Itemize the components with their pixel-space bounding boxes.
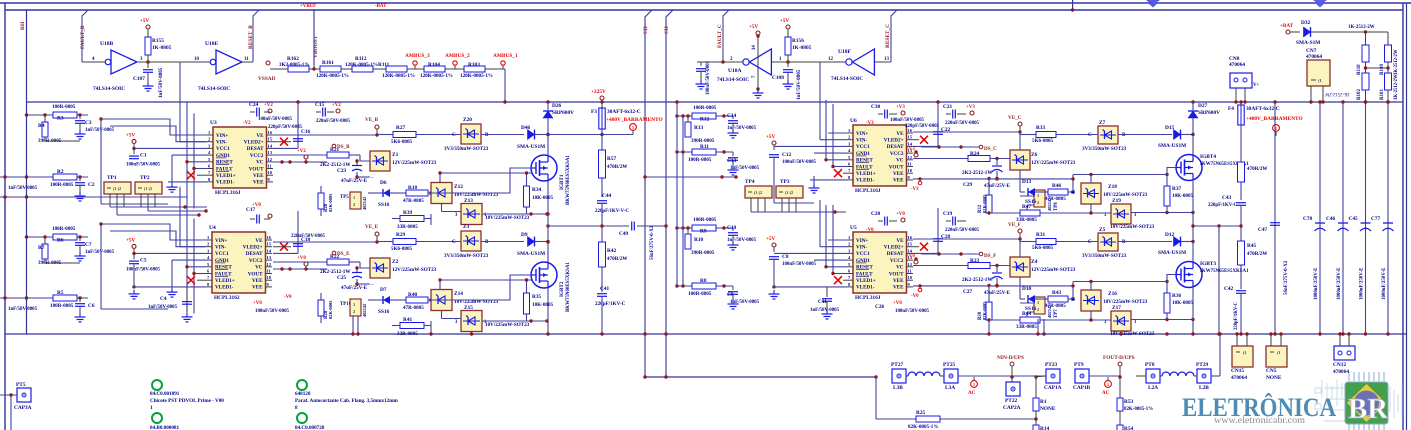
wire pin8 feed [168,181,207,183]
svg-text:R6: R6 [57,238,64,244]
svg-text:D13: D13 [1022,179,1032,185]
wire gate [1167,275,1176,282]
svg-text:SMA-S1M: SMA-S1M [1296,40,1320,46]
svg-text:CAP1A: CAP1A [1044,385,1062,391]
pin 14 DESAT [907,252,914,254]
transistor IGBT3 [1176,262,1202,288]
svg-text:1: 1 [1107,382,1109,387]
pin 12 VC [907,266,914,268]
zener Z4 12V/225mW-SOT23 [1010,257,1030,277]
wire Z19 pin1 row [1131,212,1193,214]
ground [171,288,173,292]
svg-text:VIN+: VIN+ [215,238,227,244]
zener Z3 3V3/350mW-SOT23 [416,241,461,243]
svg-text:AMBUS_3: AMBUS_3 [405,53,430,59]
svg-text:14: 14 [268,143,273,148]
pin 1 VIN+ [207,134,214,136]
svg-text:R25: R25 [916,410,926,416]
capacitor C23 47uF/25V-E [356,161,358,165]
resistor R42 470R/2W [599,242,606,267]
svg-text:84.B0.000081: 84.B0.000081 [150,425,179,430]
border frame right vertical pair [1402,3,1404,430]
svg-text:100nF/50V-0805: 100nF/50V-0805 [126,162,161,167]
svg-text:DS_C: DS_C [984,146,997,152]
svg-text:220nF/50V-0805: 220nF/50V-0805 [316,119,351,124]
resistor R45 470R/2W [1238,241,1245,265]
svg-text:220pF/50V-0805: 220pF/50V-0805 [905,124,940,129]
wire gate riser [1072,282,1074,300]
svg-text:16: 16 [268,130,273,135]
svg-text:VE_B: VE_B [365,117,379,123]
svg-text:R37: R37 [1172,186,1182,192]
ground [147,73,149,82]
svg-text:R31: R31 [1036,232,1046,238]
svg-text:R1: R1 [1040,399,1047,405]
resistor R161 120K-0805-1% [320,66,341,72]
svg-text:SS16: SS16 [378,309,390,315]
diode D46 SMA-US1M [481,134,524,136]
svg-text:R156: R156 [792,38,804,44]
wire Z17 stub to rail [1120,331,1122,334]
wire bank top [1364,30,1367,33]
svg-text:C43: C43 [1222,195,1232,201]
wire collector [547,242,549,263]
svg-text:100nF/50V-0805: 100nF/50V-0805 [706,60,711,95]
resistor R44b 470R/2W [1240,125,1242,162]
wire collector [1192,242,1194,262]
svg-text:R36: R36 [1172,293,1182,299]
svg-text:TP8: TP8 [1054,202,1059,211]
svg-text:13: 13 [268,150,273,155]
svg-text:VE: VE [896,131,904,137]
capacitor C2 1nF/50V-0805 [79,177,81,181]
wire R30 stub to rail [988,320,990,334]
svg-text:C77: C77 [1371,216,1381,222]
svg-text:VOUT: VOUT [889,164,904,170]
ground [732,236,734,241]
svg-text:C19: C19 [943,211,953,217]
wire Z19 pin1 row [1131,319,1193,321]
resistor R104 120K-0805-1% [424,66,445,72]
wire zener top row [1073,174,1167,176]
svg-text:R161: R161 [322,60,334,66]
svg-text:47R-0805: 47R-0805 [403,198,424,204]
svg-text:56nF/275V-0-X2: 56nF/275V-0-X2 [1284,260,1289,295]
zener Z6 12V/225mW-SOT23 [1010,150,1030,170]
resistor R7 390R-0805 [44,237,46,244]
svg-text:DESAT: DESAT [246,251,263,257]
net minus +V0 [918,288,922,292]
svg-text:Z6: Z6 [1031,152,1038,158]
svg-text:C49: C49 [619,231,629,237]
ground [79,124,81,130]
svg-text:VEE: VEE [252,278,263,284]
svg-text:VIN+: VIN+ [216,133,228,139]
svg-text:AC: AC [968,390,976,396]
svg-text:+BAT: +BAT [1280,23,1294,29]
capacitor C3 1nF/50V-0805 [79,115,81,119]
svg-text:DS_F: DS_F [984,253,996,259]
resistor R32 82K-0805 [986,195,992,213]
capacitor C49 56nF/275V-X2 [548,225,629,227]
svg-text:CAP3A: CAP3A [14,405,32,411]
svg-text:1000uF/250V-E: 1000uF/250V-E [1314,267,1319,300]
svg-text:220pF/1KV-V-C: 220pF/1KV-V-C [595,209,629,214]
capacitor C7 1nF/50V-0805 [79,237,81,241]
wire R25 drop [875,377,877,419]
pin 10 VEE [907,279,914,281]
pin 14 DESAT [267,147,274,149]
logo chip graphic [1345,372,1388,430]
svg-text:R3: R3 [57,116,64,122]
resistor R112 120K-0805-1% [352,66,373,72]
svg-text:(1: (1 [1318,78,1322,83]
svg-text:5K6-0805: 5K6-0805 [391,246,413,252]
connector PT22 CAP2A [1011,377,1013,382]
svg-text:+V2: +V2 [297,149,306,154]
svg-text:47uF/25V-E: 47uF/25V-E [341,285,368,291]
svg-text:C107: C107 [133,76,145,82]
pin 4 GND1 [207,154,214,156]
svg-text:2K2-2512-1W: 2K2-2512-1W [962,170,993,176]
svg-text:3V3/350mW-SOT23: 3V3/350mW-SOT23 [444,253,489,259]
red X pin15 D [920,243,928,251]
svg-text:470R/2W: 470R/2W [607,256,628,262]
svg-text:R57: R57 [607,156,617,162]
svg-text:82K-0805-1%: 82K-0805-1% [1124,407,1153,412]
svg-text:30AFT-6x32-C: 30AFT-6x32-C [607,109,641,115]
svg-text:10K-0805: 10K-0805 [1172,300,1194,306]
inductor L2 [1160,375,1162,377]
mounting note circle 1 [152,380,162,390]
svg-text:VC: VC [255,265,263,271]
svg-text:10: 10 [908,168,913,173]
junction dots bottom rail [1191,332,1194,335]
pin 6 FAULT [206,273,213,275]
ground [79,186,81,192]
svg-text:C10: C10 [727,225,737,231]
svg-text:DESAT: DESAT [887,144,904,150]
capacitor C9 1nF/50V-0805 [732,286,734,290]
pin 15 VLED2+ [267,141,274,143]
svg-text:C25: C25 [337,275,347,281]
svg-text:1: 1 [848,128,850,133]
svg-text:74LS14-SOIC: 74LS14-SOIC [93,86,125,92]
wire pin6 FAULT feed [194,273,206,275]
resistor R28 82K-0805 [318,300,324,316]
red X pin15 B [280,243,288,251]
svg-text:74LS14-SOIC: 74LS14-SOIC [831,76,863,82]
svg-text:74LS14-SOIC: 74LS14-SOIC [717,77,749,83]
svg-text:R46: R46 [1052,183,1062,189]
wire pin9 row [913,285,1073,287]
svg-text:220pF/1KV-C: 220pF/1KV-C [1208,203,1238,208]
border frame outer top line [0,2,1411,4]
svg-text:10: 10 [267,275,272,280]
inductor L3 [906,375,908,377]
svg-text:-V3: -V3 [911,187,919,192]
svg-text:(1: (1 [1243,350,1247,355]
svg-text:C15: C15 [315,102,325,108]
wire U18B output [137,61,210,63]
pin 3 VCC1 [206,252,213,254]
resistor R13 390R-0805 [687,116,689,122]
svg-text:470064: 470064 [1306,54,1322,60]
resistor R14 [1035,419,1037,425]
svg-text:47R-0805: 47R-0805 [403,305,424,311]
svg-text:1000uF/250V-E: 1000uF/250V-E [1337,267,1342,300]
pin 3 VCC1 [847,145,854,147]
net DS_F [921,253,979,255]
transistor IGBT4 [1176,155,1202,181]
resistor R23 2K2-2512-1W [913,265,968,267]
wire Z14 stub to rail [430,332,432,334]
svg-text:-V2: -V2 [243,121,251,126]
svg-text:C3: C3 [85,120,92,126]
svg-text:10: 10 [268,170,273,175]
svg-text:CAP1B: CAP1B [1073,385,1091,391]
port arrow top 2 [1313,0,1327,5]
svg-text:220pF/1KV-C: 220pF/1KV-C [1234,302,1239,330]
wire collector [547,135,549,156]
pin 13 VCC2 [266,259,273,261]
svg-text:DS_E: DS_E [337,251,350,257]
svg-text:VEE: VEE [893,178,904,184]
svg-text:120K-0805-1%: 120K-0805-1% [382,73,415,79]
svg-text:Z2: Z2 [392,259,399,265]
svg-text:33R-0805: 33R-0805 [1016,324,1037,330]
svg-text:C4: C4 [160,296,167,302]
wire emitter [1192,181,1194,213]
diode D9 SMA-US1M [481,241,524,243]
svg-text:IGBT4: IGBT4 [1200,154,1216,160]
svg-text:16: 16 [267,235,272,240]
wire routing verticals [179,187,181,247]
svg-text:HCPL3162: HCPL3162 [214,295,240,301]
red X pin7 D [834,276,842,284]
svg-text:+V2: +V2 [332,103,341,108]
ground [773,290,775,294]
wire DESAT [273,147,298,149]
svg-text:C23: C23 [337,168,347,174]
svg-text:648120: 648120 [295,391,311,397]
svg-text:CH: CH [664,26,670,34]
zener Z2 12V/225mW-SOT23 [349,261,360,263]
svg-text:R47: R47 [1022,204,1032,210]
pin 4 GND1 [206,259,213,261]
svg-text:+V0: +V0 [893,301,902,306]
capacitor C22 220pF/50V-0805 [937,102,939,146]
svg-text:1nF/50V-0805: 1nF/50V-0805 [727,238,757,243]
svg-text:VE_E: VE_E [365,224,379,230]
wire pin8 feed [168,286,206,288]
svg-text:82K-0805: 82K-0805 [982,301,987,320]
svg-text:VLED1-: VLED1- [856,285,875,291]
ground [133,290,135,294]
capacitor C29 47uF/25V-E [996,159,998,166]
svg-text:5K6-0805: 5K6-0805 [1032,245,1054,251]
svg-text:AC: AC [1102,390,1110,396]
svg-text:U18B: U18B [100,41,114,47]
capacitor C14 1nF/50V-0805 [732,116,734,119]
resistor R43 47R-0805 [1035,298,1048,300]
pin 5 RESET [206,266,213,268]
wire pin6 FAULT feed [194,168,207,170]
svg-text:+400V_BARRAMENTO: +400V_BARRAMENTO [606,117,663,123]
svg-text:12V/225mW-SOT23: 12V/225mW-SOT23 [1031,160,1076,166]
svg-text:Z17: Z17 [1112,305,1121,311]
svg-text:(1: (1 [1277,350,1281,355]
svg-text:(1 (2: (1 (2 [113,186,121,191]
svg-text:R104: R104 [428,62,440,68]
svg-text:Z4: Z4 [1031,259,1038,265]
svg-text:+V3: +V3 [906,147,915,152]
pin 13 VCC2 [907,152,914,154]
pin 11 VOUT [266,273,273,275]
svg-text:SMA-US1M: SMA-US1M [1158,143,1186,149]
svg-text:470064: 470064 [1229,62,1245,68]
svg-text:HCPL316J: HCPL316J [855,295,881,301]
svg-text:CH: CH [643,26,649,34]
svg-text:R35: R35 [532,294,542,300]
svg-text:14: 14 [908,141,913,146]
transistor IGBT1 [531,155,557,181]
power VSSAD [266,61,270,65]
svg-text:TP3: TP3 [780,179,790,185]
red X pin15 C [920,136,928,144]
svg-text:FOUT-D/UPS: FOUT-D/UPS [1103,355,1135,361]
svg-text:HCPL316J: HCPL316J [855,188,881,194]
svg-text:47R-0805: 47R-0805 [1045,196,1066,202]
svg-text:HCPL316J: HCPL316J [215,190,241,196]
svg-text:82K-0805: 82K-0805 [328,193,333,212]
svg-text:1nF/50V-0805: 1nF/50V-0805 [85,128,115,133]
wire U18F output to RESET_C [875,61,891,63]
svg-text:TP1: TP1 [107,175,117,181]
svg-text:1K-2512-2W: 1K-2512-2W [1324,91,1350,96]
svg-text:1000uF/250V-E: 1000uF/250V-E [1360,267,1365,300]
svg-text:10K-0805: 10K-0805 [532,302,554,308]
svg-text:C7: C7 [85,242,92,248]
svg-text:100nF/50V-0805: 100nF/50V-0805 [895,309,930,314]
svg-text:Z18: Z18 [1108,184,1117,190]
svg-text:3V3/350mW-SOT23: 3V3/350mW-SOT23 [1082,146,1127,152]
wire B emitter to rail [547,321,549,334]
capacitor C13 1nF/50V-0805 [732,152,734,156]
border frame inner top line [5,9,1403,11]
svg-text:R103: R103 [468,62,480,68]
svg-text:SRP600V: SRP600V [552,110,574,116]
capacitor C47 56nF/275V-X2 [1274,102,1276,334]
capacitor C45 1000uF/250V-E [1365,102,1367,334]
svg-text:RESET_B: RESET_B [248,25,254,49]
connector 402142 TP8 [1034,190,1045,207]
svg-text:VOUT: VOUT [889,271,904,277]
svg-text:100R-0805: 100R-0805 [50,303,74,309]
wire U5 pin feeds [828,239,847,241]
svg-text:82K-0805-1%: 82K-0805-1% [908,424,938,430]
wire input row R2 [0,176,88,178]
resistor R21 2K2-2512-1W [273,154,327,156]
svg-text:D7: D7 [380,287,387,293]
svg-text:C11: C11 [818,299,827,305]
svg-text:5K6-0805: 5K6-0805 [1032,138,1054,144]
svg-text:12V/225mW-SOT23: 12V/225mW-SOT23 [1031,267,1076,273]
ground [732,124,734,129]
svg-text:C44: C44 [602,193,612,199]
svg-text:VEE: VEE [252,285,263,291]
resistor R10 390R-0805 [687,228,689,234]
svg-text:1nF/50V-0805: 1nF/50V-0805 [158,67,164,98]
svg-text:220pF/50V-0805: 220pF/50V-0805 [268,125,303,130]
svg-text:PT29: PT29 [1196,362,1209,368]
svg-text:15: 15 [268,137,273,142]
wire phase C to cap bank [1193,225,1219,227]
pin 1 VIN+ [206,239,213,241]
svg-text:220nF/50V-0805: 220nF/50V-0805 [945,121,980,126]
svg-text:47uF/25V-E: 47uF/25V-E [984,290,1011,296]
wire phase link A-B [547,214,549,242]
svg-text:C27: C27 [963,289,973,295]
svg-text:C: C [1088,132,1092,138]
svg-text:+V0: +V0 [252,203,261,208]
svg-text:100nF/50V-0805: 100nF/50V-0805 [782,262,817,267]
svg-text:402142: 402142 [362,303,367,317]
svg-text:1000uF/250V-E: 1000uF/250V-E [1382,267,1387,300]
svg-text:VIN+: VIN+ [856,238,868,244]
wire input row R8 [677,285,733,287]
svg-text:D32: D32 [1301,20,1311,26]
diode D15 SMA-US1M [1118,134,1172,136]
svg-text:VIN-: VIN- [216,140,227,146]
pin 5 RESET [847,266,854,268]
svg-text:SMA-US1M: SMA-US1M [517,144,545,150]
net minus +V3 [918,181,922,185]
svg-text:12V/225mW-SOT23: 12V/225mW-SOT23 [392,267,437,273]
svg-text:14: 14 [908,248,913,253]
svg-text:SMA-US1M: SMA-US1M [517,251,545,257]
svg-text:C26: C26 [875,304,885,310]
wire emitter row [482,213,547,215]
svg-text:11: 11 [267,269,271,274]
svg-text:C24: C24 [249,102,259,108]
svg-text:IKW75N65ES5XKSA1: IKW75N65ES5XKSA1 [1200,269,1249,274]
capacitor C109 [700,62,702,66]
capacitor C5b 1nF ground cap [186,287,188,300]
svg-text:VLED2+: VLED2+ [244,140,264,146]
svg-text:VEE: VEE [893,278,904,284]
svg-text:AMBUS_1: AMBUS_1 [493,53,518,59]
svg-text:D9: D9 [521,232,528,238]
svg-text:TP7: TP7 [1054,309,1059,318]
svg-text:15: 15 [908,135,913,140]
pin 1 VIN+ [847,239,854,241]
svg-text:18V/225mW-SOT23: 18V/225mW-SOT23 [1110,331,1155,337]
svg-text:RESET_C: RESET_C [885,24,891,48]
svg-text:U4: U4 [209,225,216,231]
svg-text:C1: C1 [140,152,147,158]
capacitor C107 [147,62,149,68]
svg-text:VCC2: VCC2 [249,258,263,264]
svg-text:18V/225mW-SOT23: 18V/225mW-SOT23 [485,215,530,221]
pin 11 VOUT [267,168,274,170]
svg-text:SRP600V: SRP600V [1198,110,1220,116]
svg-text:10: 10 [194,57,199,62]
inverter U18F [846,59,852,65]
resistor R30 82K-0805 [986,302,992,320]
svg-text:+V0: +V0 [896,212,905,217]
net AC 2 [1105,381,1112,388]
